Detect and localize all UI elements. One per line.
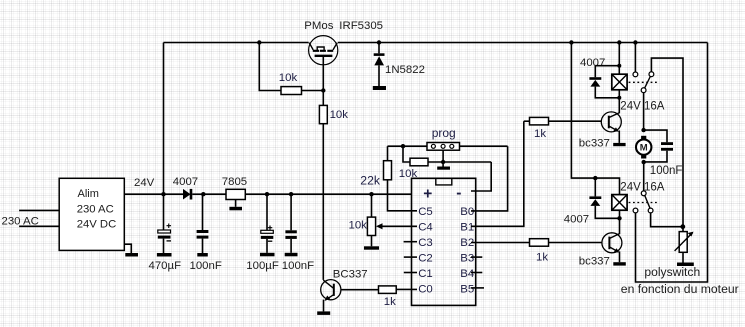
svg-text:100µF: 100µF bbox=[246, 260, 279, 272]
node gate junction bbox=[321, 88, 325, 92]
potentiometer R5 10k bbox=[369, 192, 373, 196]
svg-text:B1: B1 bbox=[460, 222, 474, 234]
svg-text:polyswitch: polyswitch bbox=[644, 265, 700, 279]
svg-text:C0: C0 bbox=[418, 284, 433, 296]
node relay2 rail tap bbox=[569, 40, 573, 44]
capacitor C2 100nF bbox=[202, 194, 204, 230]
wire B2 to 1k relay2 bbox=[471, 242, 530, 244]
node junction 100uF bbox=[265, 192, 269, 196]
wire Alim 24V output bbox=[124, 193, 163, 195]
svg-text:10k: 10k bbox=[279, 72, 298, 84]
op-amp U1 microcontroller box bbox=[412, 178, 476, 305]
relay K1 coil bbox=[618, 43, 620, 98]
svg-text:100nF: 100nF bbox=[190, 260, 222, 272]
relay K2 coil bbox=[612, 195, 627, 211]
box Alim power supply bbox=[59, 178, 124, 250]
svg-text:10k: 10k bbox=[330, 109, 349, 121]
resistor R3 1k bbox=[379, 286, 397, 294]
node junction after D1 bbox=[201, 192, 205, 196]
node relay2 coil bottom junction bbox=[617, 216, 621, 220]
resistor R2 10k vertical bbox=[322, 91, 324, 106]
node relay1 contact tap bbox=[633, 40, 637, 44]
svg-text:24V 16A: 24V 16A bbox=[620, 101, 664, 113]
svg-text:10k: 10k bbox=[349, 220, 368, 232]
wire top 24V rail left of PMOS bbox=[164, 42, 309, 44]
svg-text:B3: B3 bbox=[460, 252, 474, 264]
svg-text:C1: C1 bbox=[418, 268, 433, 280]
svg-text:B0: B0 bbox=[460, 206, 474, 218]
svg-text:24V 16A: 24V 16A bbox=[620, 181, 664, 193]
node motor top junction bbox=[643, 93, 645, 130]
resistor R6 10k horizontal bbox=[403, 146, 410, 162]
ground Alim pad bbox=[125, 253, 138, 257]
wire gate tap vertical bbox=[259, 43, 281, 91]
polyswitch PTC bbox=[679, 232, 687, 253]
svg-text:IRF5305: IRF5305 bbox=[339, 20, 383, 32]
wire 230AC input upper bbox=[19, 209, 59, 211]
svg-text:B5: B5 bbox=[460, 284, 474, 296]
svg-text:C3: C3 bbox=[418, 237, 433, 249]
node junction 24V bbox=[161, 192, 165, 196]
resistor R8 1k relay2 bbox=[530, 239, 549, 247]
diode D3 4007 relay2 bbox=[593, 176, 597, 180]
svg-text:4007: 4007 bbox=[564, 213, 589, 225]
svg-text:230 AC: 230 AC bbox=[2, 216, 39, 228]
node junction 100nF2 bbox=[289, 192, 293, 196]
wire relay1 NO to polyswitch net bbox=[651, 58, 683, 232]
resistor R4 22k bbox=[387, 146, 389, 161]
svg-text:1N5822: 1N5822 bbox=[385, 64, 425, 76]
svg-text:C4: C4 bbox=[418, 222, 433, 234]
node relay1 coil tap bbox=[617, 40, 621, 44]
resistor R1 10k gate bbox=[281, 87, 302, 95]
svg-text:24V: 24V bbox=[134, 177, 155, 189]
svg-text:7805: 7805 bbox=[222, 176, 247, 188]
wire gate drive down to BC337 collector bbox=[322, 124, 324, 280]
wire top 24V rail right of PMOS bbox=[338, 42, 708, 44]
svg-text:C5: C5 bbox=[418, 206, 433, 218]
wire to 7805 bbox=[203, 193, 226, 195]
motor M1 bbox=[641, 136, 646, 140]
wire BC337 base bbox=[341, 289, 379, 291]
node prog center pin ground bbox=[442, 150, 444, 162]
svg-text:100nF: 100nF bbox=[282, 260, 314, 272]
wire relay2 supply rail bbox=[571, 43, 619, 195]
wire left vertical rail from top rail to 24V node bbox=[163, 43, 165, 195]
resistor R7 1k relay1 bbox=[524, 120, 530, 122]
svg-text:C2: C2 bbox=[418, 252, 433, 264]
node relay1 coil bottom junction bbox=[617, 96, 621, 100]
svg-text:bc337: bc337 bbox=[579, 255, 610, 267]
svg-text:1k: 1k bbox=[384, 296, 396, 308]
wire Alim ground stub bbox=[124, 244, 131, 253]
node polyswitch junction bbox=[680, 224, 685, 229]
diode D1 4007 bbox=[164, 193, 184, 195]
svg-text:M: M bbox=[640, 143, 648, 154]
node relay1 coil top bbox=[617, 64, 621, 68]
svg-text:BC337: BC337 bbox=[333, 269, 368, 281]
svg-text:-: - bbox=[456, 185, 461, 202]
node 1N5822 tap bbox=[377, 40, 381, 44]
node prog left junction bbox=[401, 144, 405, 148]
svg-text:PMos: PMos bbox=[304, 20, 333, 32]
svg-text:B4: B4 bbox=[460, 268, 474, 280]
svg-text:470µF: 470µF bbox=[149, 260, 182, 272]
svg-text:24V DC: 24V DC bbox=[77, 219, 117, 231]
wire ground net to IC minus bbox=[471, 162, 491, 191]
svg-text:Alim: Alim bbox=[78, 188, 99, 200]
wire relay2 NO to polyswitch junction bbox=[651, 213, 683, 227]
svg-text:100nF: 100nF bbox=[650, 165, 683, 177]
svg-text:+: + bbox=[423, 186, 432, 203]
svg-text:22k: 22k bbox=[360, 174, 381, 188]
capacitor C1 470uF bbox=[163, 194, 165, 230]
relay K1 contacts bbox=[634, 43, 636, 72]
wire 230AC input lower bbox=[19, 225, 59, 227]
regulator U2 7805 bbox=[226, 189, 245, 199]
wire right border from top rail down to polyswitch loop bbox=[636, 43, 708, 283]
capacitor C3 100uF bbox=[266, 194, 268, 230]
diode D4 1N5822 bbox=[378, 43, 380, 54]
svg-text:en fonction du moteur: en fonction du moteur bbox=[621, 282, 739, 296]
wire 5V rail to IC bbox=[245, 193, 411, 195]
capacitor C5 100nF motor bbox=[644, 130, 667, 142]
svg-text:prog: prog bbox=[432, 126, 456, 140]
svg-text:230 AC: 230 AC bbox=[77, 204, 114, 216]
svg-text:4007: 4007 bbox=[580, 57, 605, 69]
svg-text:1k: 1k bbox=[534, 128, 546, 140]
capacitor C4 100nF bbox=[290, 194, 292, 230]
svg-text:1k: 1k bbox=[536, 252, 548, 264]
node gate tap on rail bbox=[257, 40, 261, 44]
svg-text:4007: 4007 bbox=[173, 176, 198, 188]
svg-text:bc337: bc337 bbox=[579, 138, 610, 150]
relay K2 contacts bbox=[643, 162, 645, 191]
wire B1 to 1k relay1 bbox=[471, 121, 524, 226]
wire B0 to prog pin3 bbox=[471, 146, 508, 211]
wire PMOS gate stem bbox=[322, 57, 324, 91]
